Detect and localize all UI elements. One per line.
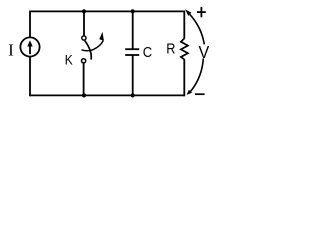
wire top: [30, 10, 184, 12]
svg-text:C: C: [143, 44, 153, 61]
current source I: [20, 37, 39, 56]
plus polarity mark: [197, 7, 206, 17]
svg-text:V: V: [199, 42, 210, 62]
node junction top switch: [82, 9, 86, 13]
voltage arrow V lower arc: [187, 58, 204, 95]
resistor R zigzag: [181, 39, 188, 60]
voltage arrow V upper arc: [185, 9, 204, 44]
wire capacitor branch upper: [132, 11, 134, 50]
wire switch branch upper: [83, 11, 85, 36]
wire switch branch lower: [83, 63, 85, 96]
node junction bottom switch: [82, 93, 86, 97]
switch K motion arrow: [82, 32, 104, 51]
svg-text:R: R: [166, 41, 175, 58]
wire left branch upper: [29, 11, 31, 38]
capacitor C plates: [125, 49, 139, 55]
wire resistor branch lower: [183, 59, 185, 96]
switch K upper contact: [82, 36, 86, 40]
switch K lower contact: [82, 59, 86, 63]
switch K blade: [85, 41, 92, 60]
wire capacitor branch lower: [132, 55, 134, 96]
svg-text:I: I: [8, 41, 14, 60]
wire left branch lower: [29, 57, 31, 97]
wire bottom: [30, 94, 184, 96]
wire resistor branch upper: [183, 11, 185, 39]
svg-text:K: K: [65, 52, 74, 68]
minus polarity mark: [195, 93, 205, 95]
node junction bottom capacitor: [131, 93, 135, 97]
node junction top capacitor: [131, 9, 135, 13]
